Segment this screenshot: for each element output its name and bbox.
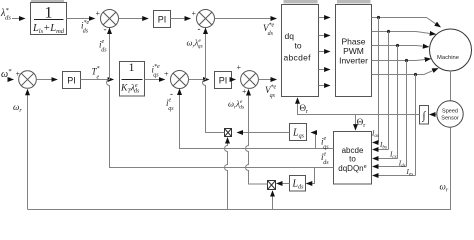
node: tap dot phase cs [396,44,399,47]
svg-text:to: to [349,155,356,164]
wire: branch i_e_ds to Lds block [313,168,315,184]
block Lds [290,176,306,192]
wire: omega*r input [11,79,13,81]
wire: theta_r branch to abcde block top [355,115,357,126]
wire: i_e_qs feedback line to J4 [180,94,334,149]
wire: phase line a [372,18,441,27]
wire: block to J1 [67,18,95,20]
svg-text:Inverter: Inverter [339,56,368,66]
svg-text:V*eds: V*eds [263,23,275,38]
svg-text:Speed: Speed [442,109,458,115]
svg-text:ieqs: ieqs [321,136,329,151]
node: tap dot phase bs [387,30,390,33]
block PI3 [215,72,232,89]
node: tap dot phase as [377,16,380,19]
wire: current tap Ias [378,18,380,143]
wire: Lqs to multiplier X1 [237,132,289,134]
wire: current tap Ics [397,46,399,159]
svg-text:ωrλeds: ωrλeds [228,99,244,111]
wire: phase line c [372,46,429,47]
wire: omega_r riser to X1 (hops feedback lines) [225,142,228,210]
svg-text:PWM: PWM [343,46,364,56]
summing junction J3 [19,71,37,89]
wire: speed sensor down to omega_r bus [28,127,451,209]
wire: X1 output to J2 bottom (omega_r lambda_e_qs, hops row-2 line) [203,33,225,133]
wire: dq to inverter line 3 [319,51,330,53]
wire: dq to inverter line 2 [319,35,330,37]
wire: phase line e [372,68,438,74]
svg-text:PI: PI [219,76,228,86]
block 1/(KT lambda_e_ds) [120,62,145,97]
wire: branch i_e_qs to Lqs block [313,133,316,149]
shadow above block 1/(Lls+Lmd) [31,0,64,2]
svg-text:Machine: Machine [437,55,459,61]
svg-text:-: - [104,24,107,34]
svg-text:ωr: ωr [13,102,22,114]
svg-text:Ibs: Ibs [379,141,387,151]
node: tap dot phase ds [405,59,408,62]
wire: dq to inverter line 4 [319,69,330,71]
svg-text:+: + [96,9,101,18]
wire: omega_r riser to X2 [272,196,274,210]
svg-text:Ids: Ids [398,159,406,169]
wire: speed sensor to integrator [430,114,437,116]
wire: dq to inverter line 1 [319,17,330,19]
shadow above Phase PWM Inverter block [337,0,371,3]
multiplier X1 [225,129,232,137]
wire: lambda*ds input [12,18,25,20]
svg-text:ωr: ωr [440,182,449,194]
block abcde to dqDQn [334,132,372,185]
svg-text:T*e: T*e [92,66,100,81]
svg-text:1: 1 [129,60,135,74]
machine circle [430,29,472,71]
wire: i_e_ds feedback line to J1 (hops row-2 line) [107,33,334,168]
svg-text:ieqs: ieqs [166,98,174,113]
wire: phase line b [372,32,436,35]
wire: torque block to J4 (i*e_qs) [145,79,165,81]
wire: J3 to PI2 [36,79,57,81]
shadow above dq-to-abcdef block [284,0,318,3]
svg-text:ω*r: ω*r [1,68,12,83]
svg-text:PI: PI [67,76,76,86]
svg-text:1: 1 [45,4,53,21]
wire: dq to inverter line 5 [319,85,330,87]
block PI1 [154,11,171,28]
wire: current tap Ibs [388,32,390,150]
integrator block [420,106,429,125]
svg-text:PI: PI [158,15,167,25]
svg-text:V*eqs: V*eqs [265,85,277,100]
svg-text:+: + [242,87,247,96]
summing junction J2 [197,10,215,28]
summing junction J4 [171,71,189,89]
svg-text:+: + [237,63,242,72]
multiplier X2 [268,181,276,190]
wire: PI3 to J5 [232,79,236,81]
wire: PI2 to torque block (T*e) [81,79,114,81]
block dq to abcdef [282,5,319,97]
svg-text:i*eqs: i*eqs [152,64,161,79]
wire: Lds to multiplier X2 [277,183,290,185]
svg-text:ωrλeqs: ωrλeqs [187,38,203,50]
svg-text:KTλeds: KTλeds [120,83,140,95]
svg-text:abcdef: abcdef [284,53,312,63]
wire: J1 to PI1 [119,18,148,20]
svg-text:Phase: Phase [341,37,365,47]
svg-text:Ies: Ies [406,168,414,178]
svg-text:i*eds: i*eds [81,20,90,35]
speed sensor circle [437,101,463,127]
svg-text:to: to [295,41,302,51]
svg-text:ieds: ieds [321,152,329,167]
svg-text:Θr: Θr [357,117,366,129]
wire: J2 to dq block (V*e_ds) [215,18,277,20]
wire: X2 output to J5 bottom (omega_r lambda_e_ds, hops feedback lines) [246,95,268,185]
svg-text:Sensor: Sensor [441,116,459,122]
svg-text:+: + [16,69,21,78]
svg-text:-: - [198,24,201,34]
block 1/(Lls+Lmd) [31,3,67,35]
wire: omega_r riser to J3 [27,93,29,210]
svg-text:ieds: ieds [99,39,107,54]
svg-text:+: + [192,9,197,18]
wire: machine to speed sensor [450,71,452,101]
wire: PI1 to J2 [171,18,191,20]
wire: phase line d [372,59,431,61]
wire: J4 to PI3 (hop carried by vertical) [189,79,209,81]
summing junction J5 [241,71,259,89]
wire: J5 to dq block (V*e_qs) [258,79,276,81]
svg-text:+: + [164,69,169,78]
svg-text:Ias: Ias [371,129,379,139]
svg-text:Θr: Θr [300,103,309,115]
block Lqs [290,124,307,141]
node: tap dot phase es [414,73,417,76]
block Phase PWM Inverter [336,5,372,97]
summing junction J1 [101,10,119,28]
wire: theta_r line to dq block bottom [298,103,420,115]
svg-text:dq: dq [285,31,295,41]
block PI2 [63,72,81,89]
svg-text:dqDQne: dqDQne [338,164,366,173]
svg-text:λ*ds: λ*ds [0,7,11,22]
wire: current tap Ids [406,61,408,167]
wire: current tap Ies [415,75,417,176]
